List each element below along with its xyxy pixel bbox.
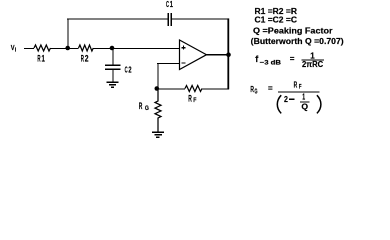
node A junction [65,46,70,51]
wire top rail right (C1 to output branch) [172,18,229,20]
svg-text:C: C [166,0,169,9]
resistor R1 [34,45,51,64]
capacitor C2 [105,64,132,74]
svg-text:=: = [290,55,295,64]
svg-text:R: R [139,101,143,111]
formula f-3dB [255,51,324,69]
wire output branch vertical [227,18,229,89]
svg-text:1: 1 [170,0,173,9]
node B junction [110,46,115,51]
svg-text:R: R [294,79,298,89]
wire input to R1 [24,48,34,50]
svg-text:G: G [145,105,149,112]
svg-text:G: G [255,88,258,95]
svg-text:2: 2 [284,94,288,104]
svg-text:F: F [193,97,196,104]
wire node C to RF [157,88,185,90]
svg-text:(Butterworth Q =0.707): (Butterworth Q =0.707) [251,36,344,46]
svg-text:C1 =C2 =C: C1 =C2 =C [255,16,298,25]
wire R1 to node A [51,48,68,50]
wire R2 to node B [93,48,112,50]
wire node A up to top rail [67,19,69,48]
svg-text:R: R [81,54,85,64]
svg-text:−3 dB: −3 dB [260,60,282,67]
wire node B down to C2 [112,48,114,65]
svg-text:C: C [125,64,128,74]
svg-text:1: 1 [42,54,45,64]
svg-text:Q: Q [301,101,308,111]
wire op-amp output [207,54,229,56]
resistor RG [139,89,161,133]
op-amp - (inverting) pin mark [181,62,185,64]
resistor R2 [79,45,94,64]
op-amp U1 [180,40,207,70]
op-amp body triangle [180,40,207,70]
svg-text:2: 2 [128,64,131,74]
svg-text:Q =Peaking Factor: Q =Peaking Factor [253,26,333,35]
node output junction [226,52,231,57]
wire top rail left (node A to C1) [67,18,168,20]
formula RG value [250,79,321,113]
svg-text:=: = [268,84,273,93]
svg-text:2πRC: 2πRC [302,60,323,69]
svg-text:R: R [37,54,41,64]
wire - input down to node C [157,63,159,89]
svg-text:1: 1 [302,93,305,102]
ground below C2 [107,82,119,87]
node Vin label [11,45,17,54]
svg-text:2: 2 [85,54,89,64]
svg-text:R: R [188,93,192,103]
node C junction [155,86,160,91]
wire RF to output branch [202,88,229,90]
svg-text:F: F [299,83,302,90]
wire node B to op-amp + input [112,48,180,50]
wire node A to R2 [68,48,79,50]
wire C2 to ground [112,69,114,82]
ground below RG [152,132,164,137]
op-amp + (non-inverting) pin mark [181,47,185,49]
capacitor C1 [166,0,173,26]
resistor RF [185,86,202,105]
wire op-amp - input [157,63,179,65]
